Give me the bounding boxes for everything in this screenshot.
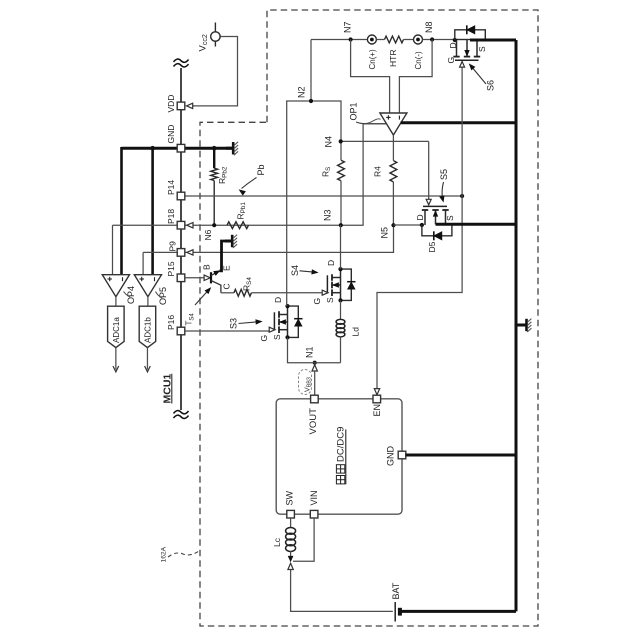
pin P16 bbox=[177, 327, 185, 335]
svg-text:GND: GND bbox=[166, 125, 176, 144]
svg-text:P9: P9 bbox=[167, 241, 177, 252]
power source Vcc2 bbox=[214, 23, 216, 47]
svg-text:MCU1: MCU1 bbox=[161, 374, 173, 404]
svg-text:N3: N3 bbox=[322, 209, 332, 221]
wire S5 source thick bbox=[436, 223, 517, 226]
svg-text:P16: P16 bbox=[166, 315, 176, 330]
resistor R5 bbox=[338, 160, 345, 181]
pin GND of DC/DC bbox=[398, 451, 406, 459]
svg-text:Lc: Lc bbox=[272, 537, 282, 547]
svg-text:S: S bbox=[445, 215, 455, 221]
svg-text:C: C bbox=[221, 283, 231, 289]
wire N7 to OP1 + input bbox=[351, 40, 390, 114]
wire GND to OP4 inverting input bbox=[120, 147, 123, 275]
svg-text:SW: SW bbox=[284, 490, 294, 505]
wire P15 to Ts4 base bbox=[185, 277, 205, 279]
connector Cn(-) bbox=[414, 35, 423, 44]
svg-text:Cn(+): Cn(+) bbox=[368, 49, 377, 70]
wire OP1 to R4 bbox=[392, 135, 394, 161]
pin P9 arrow bbox=[187, 250, 193, 255]
svg-text:P18: P18 bbox=[166, 209, 176, 224]
op-amp OP5 bbox=[134, 275, 161, 297]
pin VIN bbox=[310, 510, 318, 518]
net label VBB3 bbox=[299, 370, 312, 395]
svg-text:ADC1a: ADC1a bbox=[112, 317, 121, 343]
mosfet S4 bbox=[340, 269, 342, 300]
node N8 wire bbox=[423, 39, 455, 41]
svg-text:S3: S3 bbox=[228, 318, 238, 329]
wire P18 left to OP4+ bbox=[113, 224, 182, 226]
DC/DC converter block bbox=[276, 399, 402, 514]
svg-text:B: B bbox=[201, 264, 211, 270]
svg-text:N2: N2 bbox=[296, 86, 306, 98]
svg-text:N5: N5 bbox=[379, 227, 389, 239]
wire S6 source thick bbox=[470, 39, 516, 42]
node N6 bbox=[212, 223, 216, 227]
svg-text:S: S bbox=[325, 297, 335, 303]
svg-text:VIN: VIN bbox=[309, 490, 319, 505]
wire P14 net bbox=[185, 195, 462, 197]
pin P14 bbox=[177, 192, 185, 200]
ground on bus bbox=[516, 324, 526, 327]
ground at GND pin bbox=[226, 147, 233, 150]
mosfet S5 bbox=[428, 141, 430, 200]
wire ADC1b output arrow bbox=[146, 348, 148, 370]
svg-text:P14: P14 bbox=[166, 180, 176, 195]
wire P18 to N3 and OP1 bbox=[185, 124, 386, 226]
wire N5 to S5 drain bbox=[394, 224, 422, 226]
pin GND bbox=[177, 144, 185, 152]
inductor Lc bbox=[286, 528, 296, 535]
node P14 junction bbox=[460, 194, 464, 198]
heater HTR bbox=[376, 39, 384, 41]
resistor RPb2 bbox=[213, 148, 215, 168]
pin EN bbox=[373, 395, 381, 403]
svg-text:D: D bbox=[415, 214, 425, 220]
wire battery to bus thick bbox=[401, 610, 517, 613]
node N7 wire bbox=[311, 39, 367, 41]
svg-text:S6: S6 bbox=[485, 80, 495, 91]
pin VDD bbox=[177, 102, 185, 110]
svg-text:N7: N7 bbox=[342, 21, 352, 33]
op-amp OP4 bbox=[102, 275, 129, 297]
svg-text:S: S bbox=[272, 334, 282, 340]
wire GND pin to bus thick bbox=[406, 454, 517, 457]
resistor RPb1 bbox=[227, 222, 249, 229]
pin VDD arrow bbox=[187, 103, 193, 108]
pin P18 arrow bbox=[187, 223, 193, 228]
wire ADC1a output arrow bbox=[115, 348, 117, 370]
svg-text:S5: S5 bbox=[439, 169, 449, 180]
node N1 bbox=[313, 361, 317, 365]
dashed boundary 162A block bbox=[200, 10, 538, 626]
inductor Ld bbox=[336, 319, 345, 324]
wire S3 source to N1 bbox=[288, 337, 341, 362]
svg-text:Cn(-): Cn(-) bbox=[414, 51, 423, 70]
MCU1 bottom line break bbox=[174, 411, 189, 414]
wire OP5 to ADC1b bbox=[147, 297, 149, 307]
svg-text:ADC1b: ADC1b bbox=[144, 317, 153, 343]
pin SW bbox=[287, 510, 295, 518]
diode body S6 bbox=[455, 30, 486, 40]
wire R4 to N5 bbox=[392, 182, 394, 225]
wire GND net thick bbox=[122, 147, 233, 150]
wire battery to node bbox=[291, 570, 393, 612]
wire OP1 output thick bbox=[401, 121, 516, 124]
wire N2 net bbox=[287, 101, 341, 306]
pin VOUT bbox=[311, 395, 319, 403]
MCU1 top line break bbox=[174, 59, 189, 62]
diode D5 bbox=[420, 223, 424, 227]
resistor R4 bbox=[390, 161, 397, 182]
svg-text:S4: S4 bbox=[290, 265, 300, 276]
svg-text:D: D bbox=[326, 260, 336, 266]
wire OP4 to ADC1a bbox=[115, 297, 117, 307]
svg-text:G: G bbox=[446, 57, 456, 64]
wire P14 to S6 gate and EN bbox=[377, 61, 462, 391]
wire VIN down bbox=[293, 518, 314, 562]
arrow from battery into VIN node bbox=[288, 563, 293, 569]
wire main ground bus thick bbox=[515, 40, 518, 611]
svg-text:N1: N1 bbox=[304, 346, 314, 358]
svg-text:GND: GND bbox=[385, 446, 395, 467]
svg-text:G: G bbox=[312, 298, 322, 305]
svg-text:P15: P15 bbox=[166, 261, 176, 276]
svg-text:Ld: Ld bbox=[350, 327, 360, 337]
svg-text:N4: N4 bbox=[324, 136, 334, 148]
MCU1 microcontroller line bbox=[180, 68, 182, 410]
svg-text:Pb: Pb bbox=[256, 164, 266, 175]
pin P15 bbox=[177, 274, 185, 282]
svg-text:D5: D5 bbox=[427, 241, 437, 252]
wire P16 to S3 gate bbox=[185, 330, 270, 332]
svg-text:R4: R4 bbox=[372, 166, 382, 177]
wire P9 to N5 bbox=[143, 251, 181, 253]
svg-text:EN: EN bbox=[372, 404, 382, 417]
wire RS4 to S4 gate bbox=[251, 292, 322, 294]
pin P18 bbox=[177, 221, 185, 229]
svg-text:G: G bbox=[259, 335, 269, 342]
wire VDD to Vcc2 bbox=[187, 37, 238, 106]
wire OP5+ input bbox=[142, 252, 144, 274]
connector Cn(+) bbox=[367, 35, 376, 44]
transistor Ts4 bbox=[210, 272, 212, 283]
svg-text:D: D bbox=[273, 297, 283, 303]
svg-text:VDD: VDD bbox=[166, 95, 176, 113]
ground at Ts4 emitter bbox=[225, 240, 232, 243]
svg-text:DC/DC9: DC/DC9 bbox=[336, 427, 347, 462]
svg-text:162A: 162A bbox=[160, 546, 167, 562]
svg-text:BAT: BAT bbox=[391, 582, 401, 599]
svg-text:S: S bbox=[477, 46, 487, 52]
svg-text:D: D bbox=[448, 42, 458, 48]
wire VOUT to N1 arrow bbox=[312, 365, 317, 371]
wire Ts4 emitter to ground thick bbox=[220, 241, 226, 271]
resistor RS4 bbox=[234, 289, 252, 296]
pin P9 bbox=[177, 249, 185, 257]
battery BAT bbox=[394, 602, 396, 622]
op-amp OP1 bbox=[363, 123, 386, 125]
wire SW to Lc bbox=[290, 518, 292, 528]
node N4 wire to S5 gate bbox=[341, 140, 429, 142]
svg-text:OP1: OP1 bbox=[348, 102, 358, 120]
node N5 bbox=[391, 223, 395, 227]
wire S4 source to Ld bbox=[340, 300, 342, 319]
ADC1a converter bbox=[108, 306, 125, 347]
mosfet S3 bbox=[287, 306, 289, 337]
ADC1b converter bbox=[139, 306, 156, 347]
wire Ts4 collector bbox=[221, 292, 234, 294]
wire N3 to S4 drain bbox=[340, 225, 342, 269]
wire N8 to OP1 - input bbox=[399, 40, 432, 114]
svg-text:N6: N6 bbox=[203, 229, 213, 240]
svg-text:HTR: HTR bbox=[388, 50, 398, 67]
node N3 bbox=[339, 223, 343, 227]
wire OP4+ input bbox=[112, 225, 114, 274]
mosfet S6 bbox=[455, 39, 470, 41]
wire GND to OP5 inverting input bbox=[151, 148, 154, 274]
svg-text:N8: N8 bbox=[424, 21, 434, 33]
wire R5 to N3 bbox=[340, 181, 342, 225]
svg-text:VOUT: VOUT bbox=[308, 408, 319, 435]
